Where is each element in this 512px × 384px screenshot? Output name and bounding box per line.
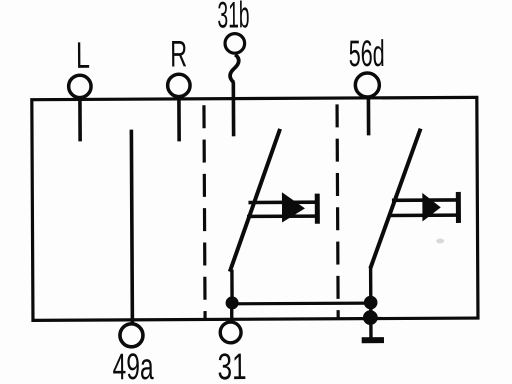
terminal L circle (69, 75, 92, 98)
junction node B (364, 296, 378, 310)
svg-text:L: L (76, 35, 90, 76)
wire stub from terminal R (177, 97, 181, 141)
svg-text:31: 31 (217, 346, 246, 384)
dashed partition line (left) (204, 105, 205, 318)
wire from node A to terminal 31 (230, 303, 233, 322)
actuation arrow of S2: stop bar (456, 192, 461, 223)
svg-text:49a: 49a (113, 346, 154, 384)
bus wire joining node A and node B (232, 301, 371, 305)
box outline (relay housing) (32, 97, 478, 320)
actuation arrow of S1: lower rail (247, 214, 316, 218)
junction node A (226, 296, 239, 309)
actuation arrow of S1: arrowhead (282, 192, 305, 222)
terminal 31 circle (220, 322, 241, 343)
terminal 49a circle (120, 324, 143, 347)
wire from 31b into box (232, 82, 236, 136)
switch contact S2 (right) diagonal (370, 129, 422, 269)
faint scan smudge (436, 239, 444, 244)
terminal 31b circle (225, 34, 245, 54)
ground lead from node B2 (369, 317, 373, 337)
svg-text:R: R (170, 33, 187, 74)
dashed partition line (right) (337, 104, 338, 318)
terminal 56d circle (355, 73, 379, 97)
svg-text:56d: 56d (349, 33, 385, 74)
wire from S2 to node B (369, 266, 373, 317)
wire of terminal 49a inside box (131, 130, 132, 324)
actuation arrow of S2: upper rail (392, 198, 457, 202)
ground bar (362, 337, 384, 343)
switch contact S1 (left) diagonal (229, 129, 281, 272)
wire from S1 to node A (230, 270, 234, 304)
junction node B2 on housing edge (363, 310, 378, 325)
actuation arrow of S1: upper rail (248, 200, 316, 204)
squiggle lead of 31b (230, 55, 239, 83)
actuation arrow of S2: arrowhead (422, 193, 441, 222)
actuation arrow of S1: stop bar (315, 194, 320, 224)
terminal R circle (168, 74, 191, 97)
wire stub from terminal 56d (367, 97, 371, 135)
wire stub from terminal L (78, 98, 82, 141)
svg-text:31b: 31b (217, 0, 249, 35)
actuation arrow of S2: lower rail (389, 213, 457, 217)
